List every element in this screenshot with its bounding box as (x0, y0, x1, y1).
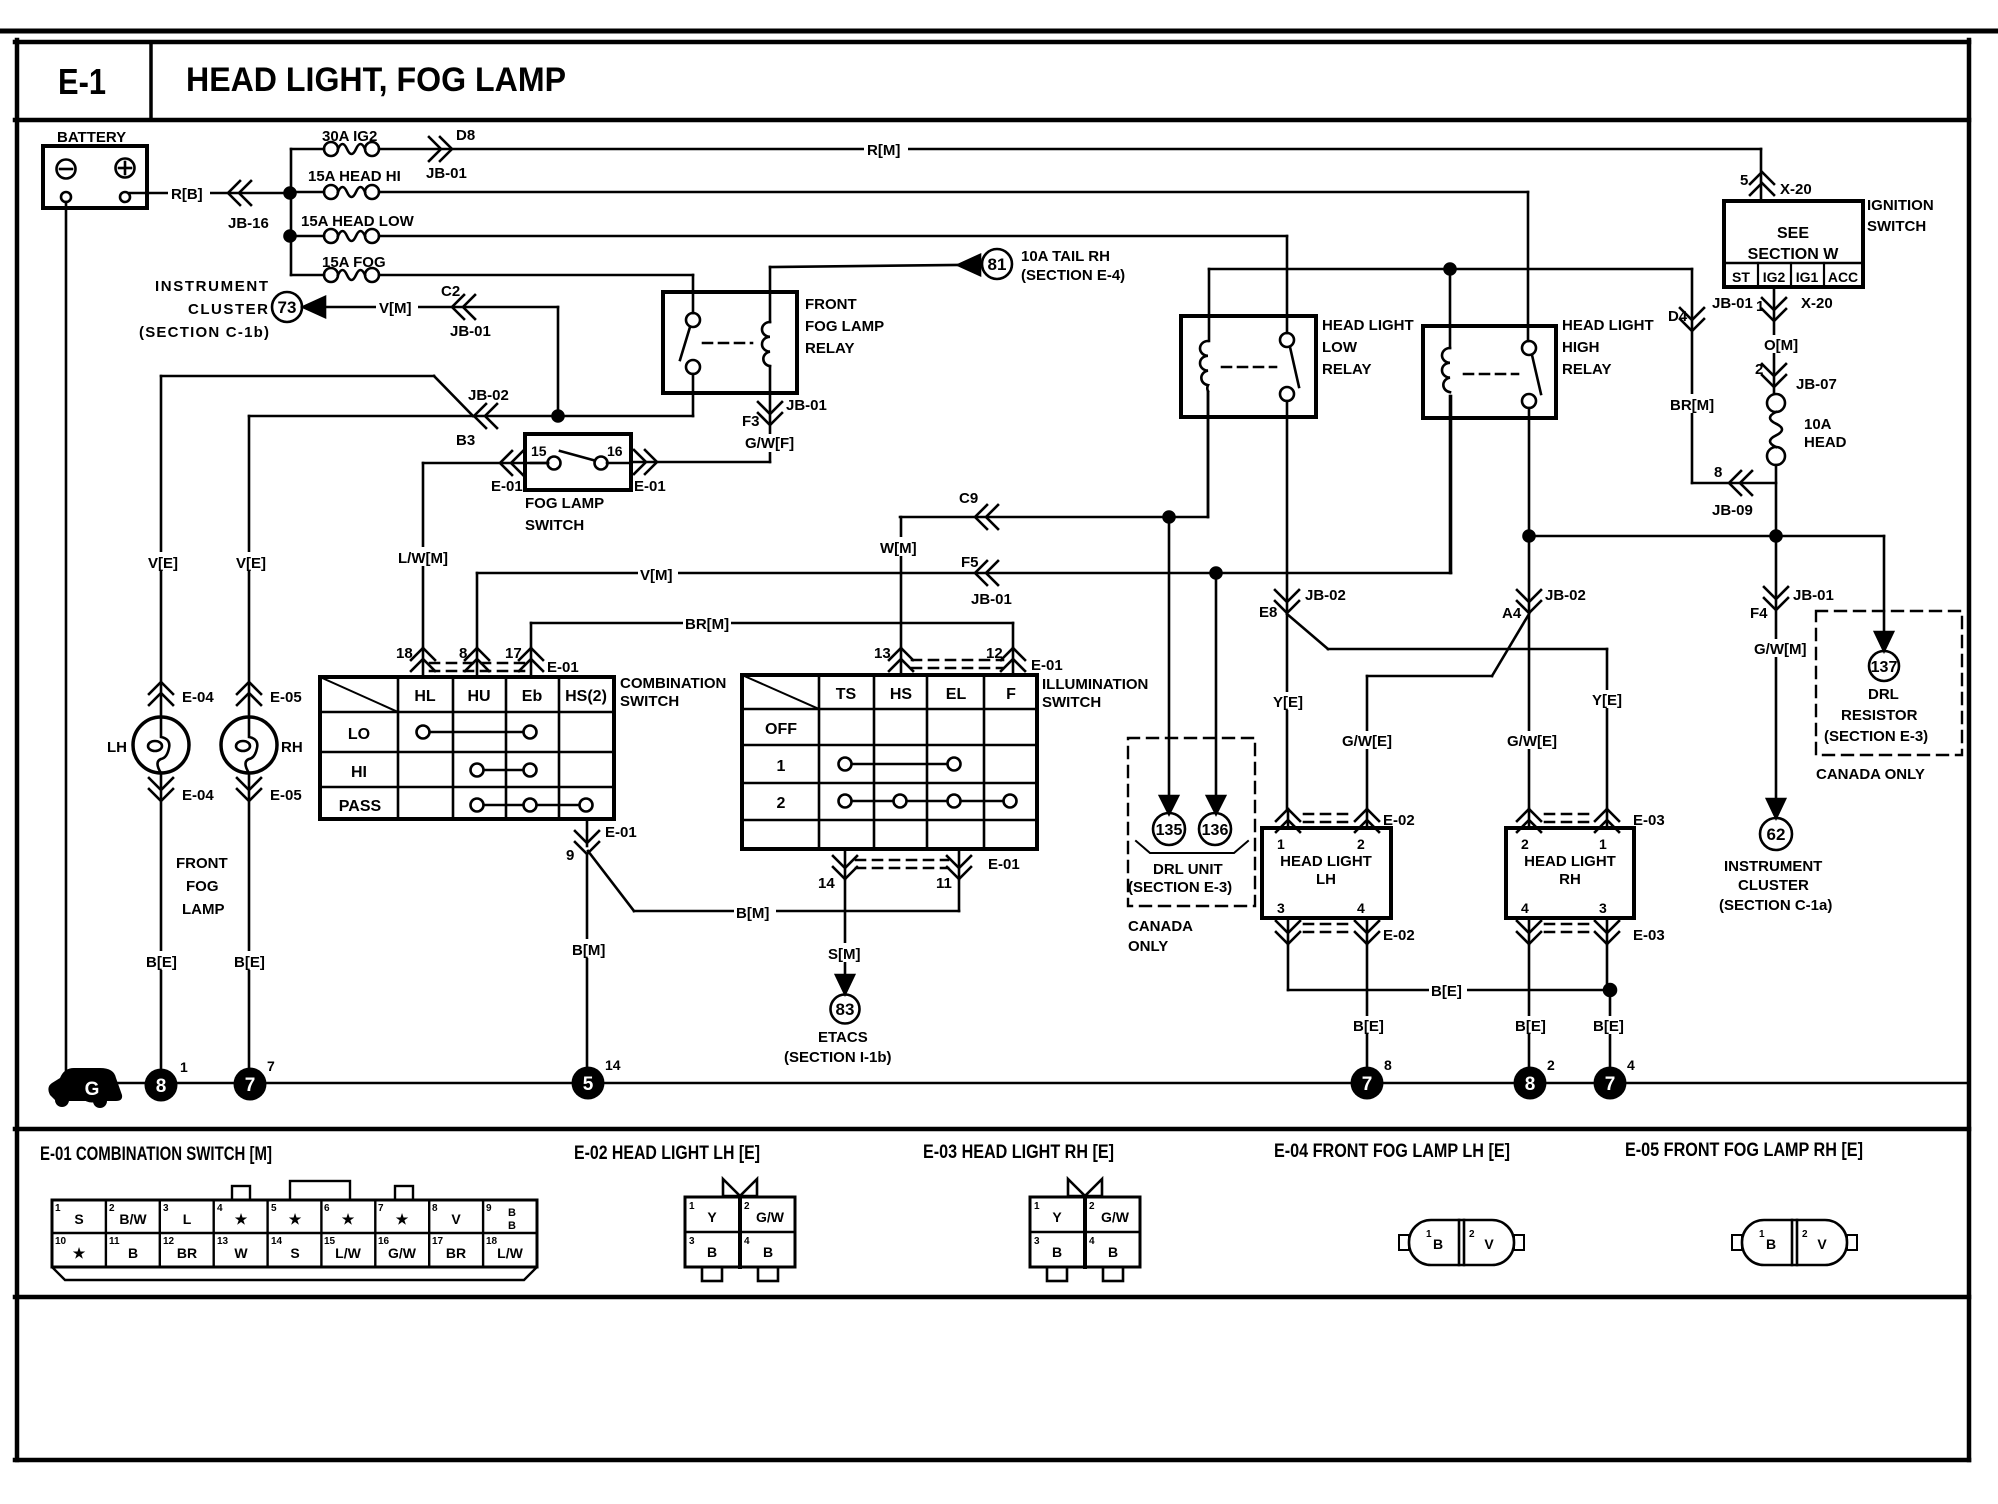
svg-text:2: 2 (1547, 1057, 1555, 1073)
svg-text:62: 62 (1767, 825, 1786, 844)
head light high relay (1423, 317, 1654, 418)
svg-text:LO: LO (348, 726, 370, 743)
svg-text:B/W: B/W (119, 1211, 147, 1227)
svg-text:2: 2 (1357, 836, 1365, 852)
svg-text:F4: F4 (1750, 605, 1768, 622)
svg-text:18: 18 (486, 1236, 498, 1247)
svg-text:7: 7 (1605, 1074, 1616, 1095)
wire V[M] combination pin 8 to high relay coil (477, 396, 1451, 648)
svg-text:V: V (451, 1211, 461, 1227)
fuse 30A IG2 (291, 128, 379, 156)
svg-text:137: 137 (1871, 659, 1898, 676)
svg-text:S[M]: S[M] (828, 946, 861, 963)
connector E-02 head light LH detail (685, 1179, 795, 1281)
svg-text:RELAY: RELAY (1562, 361, 1611, 378)
svg-text:(SECTION C-1b): (SECTION C-1b) (139, 324, 269, 341)
wire 10A TAIL / relay coil feed line y269 (1209, 269, 1692, 348)
wire B[E] head light LH pin3 ground bus (1288, 944, 1610, 1000)
svg-text:HEAD LIGHT, FOG LAMP: HEAD LIGHT, FOG LAMP (186, 61, 566, 99)
wire L/W[M] fog switch pin 15 to combination switch pin 18 (396, 451, 548, 648)
svg-text:S: S (290, 1245, 299, 1261)
svg-text:G/W[E]: G/W[E] (1342, 733, 1392, 750)
ground bus (96, 1082, 1967, 1085)
wire 15A HEAD HI to high relay contact (379, 192, 1528, 341)
svg-text:8: 8 (1525, 1074, 1536, 1095)
svg-text:G/W: G/W (1101, 1209, 1130, 1225)
svg-text:B: B (707, 1244, 717, 1260)
wire R[M] 30A IG2 to ignition switch, via D8 JB-01 (379, 127, 1761, 201)
illumination switch table (742, 675, 1148, 849)
svg-text:D8: D8 (456, 127, 475, 144)
svg-text:83: 83 (836, 1000, 855, 1019)
svg-text:L: L (183, 1211, 192, 1227)
svg-text:RH: RH (1559, 871, 1581, 888)
svg-text:2: 2 (109, 1203, 115, 1214)
instrument cluster C-1b reference circle 73 (139, 278, 325, 341)
svg-text:B: B (763, 1244, 773, 1260)
svg-text:IGNITION: IGNITION (1867, 197, 1934, 214)
svg-text:W[M]: W[M] (880, 540, 917, 557)
combination switch bottom pin 9 (566, 819, 637, 864)
fuse 15A FOG (291, 254, 386, 282)
svg-text:5: 5 (583, 1074, 594, 1095)
svg-text:SWITCH: SWITCH (620, 693, 679, 710)
svg-text:★: ★ (342, 1211, 355, 1227)
wire low relay coil bottom to W[M] line (1207, 392, 1210, 517)
svg-text:1: 1 (1599, 836, 1607, 852)
front fog lamp relay (663, 292, 884, 393)
svg-text:B[M]: B[M] (736, 905, 769, 922)
svg-text:F5: F5 (961, 554, 979, 571)
svg-text:B: B (1052, 1244, 1062, 1260)
combination switch table (320, 675, 726, 819)
svg-text:3: 3 (689, 1236, 695, 1247)
svg-text:HEAD LIGHT: HEAD LIGHT (1562, 317, 1654, 334)
wire W[M] illumination pin 13 to low relay coil via C9 (878, 392, 1208, 648)
svg-text:15: 15 (531, 443, 547, 459)
svg-text:S: S (74, 1211, 83, 1227)
fuse 15A HEAD HI (291, 168, 401, 199)
svg-text:E-03 HEAD LIGHT RH [E]: E-03 HEAD LIGHT RH [E] (923, 1142, 1114, 1163)
ground car symbol G (48, 1068, 122, 1108)
svg-text:CANADA: CANADA (1128, 918, 1193, 935)
illumination switch top pins 13 12 E-01 (874, 645, 1063, 675)
svg-text:RH: RH (281, 739, 303, 756)
svg-text:12: 12 (163, 1236, 175, 1247)
svg-text:JB-09: JB-09 (1712, 502, 1753, 519)
svg-text:2: 2 (1469, 1229, 1475, 1240)
svg-text:(SECTION I-1b): (SECTION I-1b) (784, 1049, 892, 1066)
svg-text:JB-01: JB-01 (786, 397, 827, 414)
label front fog lamp (176, 855, 228, 918)
svg-text:EL: EL (946, 686, 967, 703)
ground 8 (fog LH) (145, 1059, 189, 1102)
svg-text:CANADA ONLY: CANADA ONLY (1816, 766, 1925, 783)
wire G/W[F] fog relay coil to fog lamp switch pin 16 (631, 366, 827, 495)
svg-text:B[E]: B[E] (234, 954, 265, 971)
svg-text:CLUSTER: CLUSTER (1738, 877, 1809, 894)
svg-text:D4: D4 (1668, 308, 1688, 325)
ignition switch (1724, 172, 1934, 287)
svg-text:V: V (1817, 1236, 1827, 1252)
svg-text:B[E]: B[E] (1593, 1018, 1624, 1035)
junction y269 / high relay coil (1445, 264, 1456, 275)
svg-text:8: 8 (459, 645, 467, 662)
svg-text:30A IG2: 30A IG2 (322, 128, 377, 145)
svg-text:11: 11 (109, 1236, 120, 1247)
svg-text:HIGH: HIGH (1562, 339, 1600, 356)
fuse 10A HEAD (1767, 394, 1847, 465)
svg-text:G/W: G/W (388, 1245, 417, 1261)
svg-text:G: G (85, 1079, 100, 1100)
connector E-01 combination switch detail (52, 1181, 537, 1280)
wire 15A FOG to fog relay contact (379, 275, 693, 313)
wire 10A HEAD fuse to G/W line (1775, 465, 1778, 536)
svg-text:ETACS: ETACS (818, 1029, 868, 1046)
svg-text:X-20: X-20 (1801, 295, 1833, 312)
svg-text:HI: HI (351, 764, 367, 781)
svg-text:LH: LH (1316, 871, 1336, 888)
svg-text:ACC: ACC (1828, 269, 1858, 285)
svg-text:CLUSTER: CLUSTER (188, 301, 268, 318)
svg-text:ONLY: ONLY (1128, 938, 1168, 955)
svg-text:B: B (1108, 1244, 1118, 1260)
svg-text:(SECTION E-3): (SECTION E-3) (1824, 728, 1928, 745)
fuse bus vertical (290, 149, 293, 275)
svg-text:2: 2 (744, 1201, 750, 1212)
svg-text:★: ★ (396, 1211, 409, 1227)
svg-text:4: 4 (1357, 900, 1365, 916)
svg-text:E-04 FRONT FOG LAMP LH [E]: E-04 FRONT FOG LAMP LH [E] (1274, 1141, 1510, 1162)
svg-text:E-03: E-03 (1633, 812, 1665, 829)
junction W[M] / DRL 135 tap (1164, 512, 1175, 523)
junction fuse bus / R[B] (285, 188, 296, 199)
head light LH connector chevrons E-02 bottom (1276, 918, 1415, 944)
svg-text:B[M]: B[M] (572, 942, 605, 959)
svg-text:E-05: E-05 (270, 787, 302, 804)
svg-text:E-1: E-1 (58, 61, 106, 102)
svg-text:HEAD LIGHT: HEAD LIGHT (1524, 853, 1616, 870)
svg-text:PASS: PASS (339, 798, 382, 815)
wire Y[E] low relay output crossover to head light RH pin 1 (1287, 614, 1627, 809)
svg-text:SECTION W: SECTION W (1748, 246, 1840, 263)
svg-text:★: ★ (289, 1211, 302, 1227)
svg-text:Y[E]: Y[E] (1592, 692, 1622, 709)
svg-text:135: 135 (1156, 822, 1183, 839)
svg-text:Y: Y (707, 1209, 717, 1225)
svg-text:E-04: E-04 (182, 689, 214, 706)
wire B[E] LH pin4 to ground 7 (1351, 944, 1389, 1069)
svg-text:7: 7 (1362, 1074, 1373, 1095)
svg-text:SEE: SEE (1777, 225, 1809, 242)
svg-text:81: 81 (988, 255, 1007, 274)
head light LH connector chevrons E-02 top (1276, 809, 1415, 832)
svg-text:18: 18 (396, 645, 413, 662)
svg-text:B[E]: B[E] (146, 954, 177, 971)
svg-text:E-05: E-05 (270, 689, 302, 706)
svg-text:(SECTION C-1a): (SECTION C-1a) (1719, 897, 1832, 914)
svg-text:13: 13 (874, 645, 891, 662)
head light LH box (1262, 828, 1391, 918)
svg-text:BR[M]: BR[M] (1670, 397, 1714, 414)
wire V[E] front fog lamp RH (234, 416, 302, 717)
svg-text:RELAY: RELAY (1322, 361, 1371, 378)
title divider (149, 42, 153, 120)
wire BR[M] combination pin 17 to illumination pin 12 (531, 613, 1013, 648)
wire battery negative to ground (65, 202, 68, 1076)
wire Y[E] low relay output E8 JB-02 to head light LH pin 1 (1259, 401, 1346, 809)
wire high relay output A4 JB-02 to head light RH pin 2 (1502, 408, 1586, 809)
svg-text:ILLUMINATION: ILLUMINATION (1042, 676, 1148, 693)
svg-text:L/W: L/W (335, 1245, 361, 1261)
svg-text:E-01: E-01 (1031, 657, 1063, 674)
svg-text:E-02 HEAD LIGHT LH [E]: E-02 HEAD LIGHT LH [E] (574, 1143, 760, 1164)
svg-text:E-02: E-02 (1383, 927, 1415, 944)
svg-text:9: 9 (486, 1203, 492, 1214)
svg-text:17: 17 (505, 645, 522, 662)
head light RH connector chevrons E-03 bottom (1517, 918, 1665, 944)
svg-text:BR[M]: BR[M] (685, 616, 729, 633)
svg-text:14: 14 (271, 1236, 283, 1247)
svg-text:LAMP: LAMP (182, 901, 225, 918)
ground 8 (head light RH) (1514, 1057, 1556, 1100)
svg-text:1: 1 (777, 758, 786, 775)
wire B[E] RH pin4 to ground 8 (1513, 944, 1551, 1069)
svg-text:8: 8 (432, 1203, 438, 1214)
svg-text:1: 1 (1034, 1201, 1040, 1212)
svg-text:O[M]: O[M] (1764, 337, 1798, 354)
svg-text:1: 1 (180, 1059, 188, 1075)
svg-text:10: 10 (55, 1236, 67, 1247)
svg-text:FRONT: FRONT (805, 296, 857, 313)
ground 7 (fog RH) (234, 1058, 276, 1101)
svg-text:JB-01: JB-01 (450, 323, 491, 340)
svg-text:HS(2): HS(2) (565, 688, 607, 705)
svg-text:G/W[F]: G/W[F] (745, 435, 794, 452)
connector E-04 front fog lamp LH detail (1399, 1220, 1524, 1265)
svg-text:7: 7 (245, 1075, 256, 1096)
svg-text:F3: F3 (742, 413, 760, 430)
svg-text:5: 5 (1740, 172, 1748, 189)
wire to DRL 135 (1160, 517, 1178, 814)
svg-text:JB-01: JB-01 (1793, 587, 1834, 604)
svg-text:LH: LH (107, 739, 127, 756)
wire B[E] RH pin3 to ground 7 (1591, 944, 1629, 1069)
svg-text:BATTERY: BATTERY (57, 129, 126, 146)
DRL unit dashed box (1128, 738, 1255, 955)
svg-text:IG1: IG1 (1796, 269, 1819, 285)
connector E-05 front fog lamp RH detail (1732, 1220, 1857, 1265)
svg-text:C2: C2 (441, 283, 460, 300)
svg-text:RESISTOR: RESISTOR (1841, 707, 1918, 724)
svg-text:1: 1 (1426, 1229, 1432, 1240)
svg-text:(SECTION E-3): (SECTION E-3) (1128, 879, 1232, 896)
wire fog relay coil to 10A TAIL RH circle 81 (770, 248, 1125, 322)
svg-text:JB-01: JB-01 (426, 165, 467, 182)
svg-text:G/W[M]: G/W[M] (1754, 641, 1806, 658)
junction fuse bus / head low (285, 231, 296, 242)
wire V[E] front fog lamp LH (146, 376, 214, 717)
wire B[E] fog lamp RH to ground 7 (232, 773, 302, 1070)
svg-text:L/W: L/W (497, 1245, 523, 1261)
svg-text:SWITCH: SWITCH (1867, 218, 1926, 235)
svg-text:3: 3 (1599, 900, 1607, 916)
svg-text:G/W: G/W (756, 1209, 785, 1225)
svg-text:2: 2 (1521, 836, 1529, 852)
title text E-1 (58, 61, 566, 102)
head light RH box (1506, 828, 1634, 918)
svg-text:FOG: FOG (186, 878, 219, 895)
wire high relay coil bottom to V[M] line (1449, 396, 1452, 573)
svg-text:E-05 FRONT FOG LAMP RH [E]: E-05 FRONT FOG LAMP RH [E] (1625, 1140, 1863, 1161)
svg-text:E-01: E-01 (634, 478, 666, 495)
svg-text:INSTRUMENT: INSTRUMENT (155, 278, 268, 295)
svg-text:INSTRUMENT: INSTRUMENT (1724, 858, 1822, 875)
wire fog relay output to fog lamps (B3 JB-02) (161, 374, 693, 449)
svg-text:JB-02: JB-02 (1305, 587, 1346, 604)
svg-text:JB-07: JB-07 (1796, 376, 1837, 393)
svg-text:5: 5 (271, 1203, 277, 1214)
svg-text:HS: HS (890, 686, 913, 703)
ground 5 (combination switch) (572, 1057, 621, 1100)
svg-text:L/W[M]: L/W[M] (398, 550, 448, 567)
svg-text:E-01: E-01 (988, 856, 1020, 873)
svg-text:R[B]: R[B] (171, 186, 203, 203)
svg-text:DRL UNIT: DRL UNIT (1153, 861, 1223, 878)
svg-text:B[E]: B[E] (1353, 1018, 1384, 1035)
svg-text:HEAD LIGHT: HEAD LIGHT (1280, 853, 1372, 870)
svg-text:E8: E8 (1259, 604, 1277, 621)
DRL resistor dashed box CANADA ONLY (1816, 611, 1962, 783)
illumination switch bottom pins 14 11 E-01 (818, 849, 1020, 892)
wire high relay output crossover to head light LH pin 2 (1341, 614, 1529, 809)
svg-text:8: 8 (156, 1076, 167, 1097)
svg-text:4: 4 (1627, 1057, 1635, 1073)
svg-text:8: 8 (1714, 464, 1722, 481)
svg-text:COMBINATION: COMBINATION (620, 675, 726, 692)
wire to DRL 136 (1207, 573, 1225, 814)
head light low relay (1181, 316, 1414, 417)
svg-text:JB-01: JB-01 (1712, 295, 1753, 312)
svg-text:Eb: Eb (522, 688, 543, 705)
svg-text:V: V (1484, 1236, 1494, 1252)
svg-text:15A HEAD LOW: 15A HEAD LOW (301, 213, 415, 230)
svg-text:IG2: IG2 (1763, 269, 1786, 285)
svg-text:BR: BR (177, 1245, 197, 1261)
svg-text:2: 2 (1755, 361, 1763, 378)
svg-text:1: 1 (1756, 298, 1764, 315)
junction V[M] tap on fog relay output (553, 411, 564, 422)
wire G/W[M] F4 JB-01 to instrument cluster 62 (1719, 536, 1834, 914)
svg-text:16: 16 (607, 443, 623, 459)
svg-text:3: 3 (163, 1203, 169, 1214)
svg-text:7: 7 (378, 1203, 384, 1214)
svg-text:★: ★ (73, 1245, 86, 1261)
svg-text:V[E]: V[E] (236, 555, 266, 572)
svg-text:4: 4 (217, 1203, 223, 1214)
svg-text:HEAD: HEAD (1804, 434, 1847, 451)
ground 7 (head light RH pin3) (1594, 1057, 1636, 1100)
svg-text:4: 4 (1089, 1236, 1095, 1247)
ground 7 (head light LH) (1351, 1057, 1393, 1100)
svg-text:10A: 10A (1804, 416, 1832, 433)
svg-text:X-20: X-20 (1780, 181, 1812, 198)
wire 15A HEAD LOW to low relay contact (379, 236, 1287, 333)
svg-text:★: ★ (235, 1211, 248, 1227)
svg-text:E-03: E-03 (1633, 927, 1665, 944)
svg-text:6: 6 (324, 1203, 330, 1214)
svg-text:73: 73 (278, 298, 297, 317)
svg-text:17: 17 (432, 1236, 444, 1247)
svg-text:3: 3 (1034, 1236, 1040, 1247)
svg-text:15: 15 (324, 1236, 336, 1247)
svg-text:E-01 COMBINATION SWITCH [M]: E-01 COMBINATION SWITCH [M] (40, 1144, 272, 1165)
svg-text:SWITCH: SWITCH (1042, 694, 1101, 711)
svg-text:13: 13 (217, 1236, 229, 1247)
svg-text:3: 3 (1277, 900, 1285, 916)
svg-text:BR: BR (446, 1245, 466, 1261)
svg-text:14: 14 (818, 875, 835, 892)
svg-text:HEAD LIGHT: HEAD LIGHT (1322, 317, 1414, 334)
svg-text:ST: ST (1732, 269, 1750, 285)
svg-text:1: 1 (1277, 836, 1285, 852)
svg-text:8: 8 (1384, 1057, 1392, 1073)
battery (43, 129, 147, 208)
svg-text:R[M]: R[M] (867, 142, 900, 159)
front fog lamp RH bulb (221, 717, 303, 773)
svg-text:Y[E]: Y[E] (1273, 694, 1303, 711)
svg-text:HL: HL (414, 688, 436, 705)
wire G/W feed line y536 to DRL resistor (1529, 536, 1899, 681)
svg-text:4: 4 (1521, 900, 1529, 916)
svg-text:E-01: E-01 (547, 659, 579, 676)
svg-text:V[M]: V[M] (640, 567, 673, 584)
svg-text:LOW: LOW (1322, 339, 1358, 356)
svg-text:G/W[E]: G/W[E] (1507, 733, 1557, 750)
svg-text:FRONT: FRONT (176, 855, 228, 872)
wire R[B] battery positive to fuse bus (130, 181, 288, 232)
svg-text:HU: HU (467, 688, 490, 705)
svg-text:V[E]: V[E] (148, 555, 178, 572)
wire V[M] to instrument cluster via C2 JB-01 (325, 283, 558, 416)
svg-text:SWITCH: SWITCH (525, 517, 584, 534)
svg-text:4: 4 (744, 1236, 750, 1247)
svg-text:E-04: E-04 (182, 787, 214, 804)
wire S[M] illumination pin 14 to ETACS circle 83 (784, 879, 892, 1066)
svg-text:(SECTION E-4): (SECTION E-4) (1021, 267, 1125, 284)
svg-text:B[E]: B[E] (1431, 983, 1462, 1000)
svg-text:136: 136 (1202, 822, 1229, 839)
wire B[E] fog lamp LH to ground 8 (144, 773, 214, 1070)
svg-text:JB-02: JB-02 (1545, 587, 1586, 604)
svg-text:12: 12 (986, 645, 1003, 662)
connector panel labels (40, 1140, 1863, 1165)
svg-text:15A FOG: 15A FOG (322, 254, 386, 271)
svg-text:11: 11 (936, 875, 952, 892)
svg-text:7: 7 (267, 1058, 275, 1074)
svg-text:RELAY: RELAY (805, 340, 854, 357)
svg-text:W: W (234, 1245, 248, 1261)
combination switch top pins 18 8 17 E-01 (396, 645, 579, 677)
svg-text:FOG LAMP: FOG LAMP (525, 495, 604, 512)
page top edge (0, 29, 1998, 34)
svg-text:1: 1 (55, 1203, 61, 1214)
svg-text:V[M]: V[M] (379, 300, 412, 317)
svg-text:B: B (1433, 1236, 1443, 1252)
connector E-03 head light RH detail (1030, 1179, 1140, 1281)
svg-text:9: 9 (566, 847, 574, 864)
wire B[M] combination pin 9 to illumination pin 11 (588, 851, 959, 922)
